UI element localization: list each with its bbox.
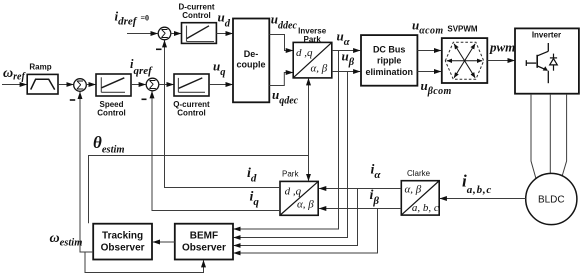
wire u_ddec step	[269, 35, 293, 51]
wire i_d feedback	[165, 40, 281, 187]
svg-text:Clarke: Clarke	[407, 169, 431, 178]
wire speed to sum2	[131, 84, 146, 86]
svg-text:SVPWM: SVPWM	[447, 24, 478, 33]
svg-text:Control: Control	[182, 11, 210, 20]
wire omega to bemf	[85, 252, 204, 273]
svg-text:a, b, c: a, b, c	[412, 202, 439, 214]
block DC Bus ripple elimination	[361, 35, 417, 86]
svg-text:BLDC: BLDC	[538, 195, 565, 206]
svg-text:ripple: ripple	[377, 56, 402, 66]
svg-text:Σ: Σ	[161, 27, 169, 41]
wire u_beta to bemf	[234, 72, 348, 238]
block D-current Control	[178, 2, 216, 43]
svg-text:d ,q: d ,q	[285, 186, 302, 198]
wire phase b	[549, 94, 551, 174]
block Park	[280, 170, 318, 216]
wire sum2 to q control	[159, 84, 174, 86]
wire d control to decouple	[216, 33, 232, 35]
wire bemf to tracking	[153, 241, 175, 243]
block Q-current Control	[173, 74, 210, 118]
wire i_q feedback	[152, 91, 280, 210]
wire i_dref input	[127, 33, 158, 35]
wire ramp to sum1	[58, 84, 73, 86]
wire phase a	[531, 94, 536, 178]
wire sum3 to d control	[171, 33, 181, 35]
svg-text:α, β: α, β	[405, 184, 422, 196]
wire u_alpha to bemf	[234, 51, 339, 230]
svg-text:Inverter: Inverter	[532, 31, 561, 40]
wire u_beta	[332, 71, 360, 73]
transistor IGBT	[526, 43, 557, 83]
wire i_beta to bemf	[234, 209, 378, 254]
block BEMF Observer	[175, 224, 233, 260]
wire theta vertical	[308, 78, 310, 181]
wire w_ref input	[2, 84, 27, 86]
svg-text:α, β: α, β	[311, 63, 328, 75]
wire u_alpha	[332, 50, 360, 52]
summer S1	[70, 79, 86, 101]
svg-text:Speed: Speed	[99, 100, 123, 109]
wire i_abc	[440, 198, 526, 200]
svg-text:pwm: pwm	[489, 40, 515, 55]
block Inverse Park	[293, 27, 332, 78]
svg-text:Observer: Observer	[101, 243, 145, 254]
svg-text:Park: Park	[282, 170, 299, 179]
svg-text:Ramp: Ramp	[29, 63, 51, 72]
wire u_bcom	[417, 71, 441, 73]
block Tracking Observer	[93, 224, 152, 260]
wire pwm	[487, 60, 514, 62]
wire theta horizontal	[89, 156, 309, 224]
block Ramp	[27, 63, 58, 95]
svg-text:elimination: elimination	[365, 67, 413, 77]
svg-text:Park: Park	[304, 35, 322, 44]
svg-text:Σ: Σ	[149, 78, 157, 92]
svg-text:d ,q: d ,q	[296, 47, 313, 59]
wire u_acom	[417, 50, 441, 52]
block Speed Control	[96, 74, 131, 118]
svg-text:De-: De-	[244, 49, 259, 59]
wire i_alpha to bemf	[234, 189, 358, 246]
svg-text:Tracking: Tracking	[102, 231, 143, 242]
block Clarke	[401, 169, 439, 215]
svg-text:Observer: Observer	[182, 243, 226, 254]
wire sum1 to speed control	[86, 84, 95, 86]
block SVPWM	[442, 24, 488, 83]
wire q control to decouple	[209, 84, 233, 86]
svg-text:Q-current: Q-current	[173, 100, 210, 109]
wire phase c	[562, 94, 567, 177]
svg-text:Σ: Σ	[76, 79, 84, 93]
motor BLDC	[526, 173, 577, 224]
wire i_beta	[319, 208, 401, 210]
wire i_alpha	[319, 188, 401, 190]
wire omega_estim up	[80, 92, 93, 252]
svg-text:BEMF: BEMF	[190, 231, 218, 242]
summer S2	[142, 78, 159, 99]
block De-couple	[233, 19, 269, 103]
svg-text:DC Bus: DC Bus	[373, 44, 406, 54]
wire u_qdec step	[269, 73, 293, 86]
summer S3	[156, 27, 171, 49]
svg-text:Control: Control	[97, 109, 125, 118]
block Inverter	[515, 28, 579, 93]
svg-text:α, β: α, β	[297, 199, 314, 211]
svg-text:couple: couple	[236, 60, 265, 70]
svg-text:Control: Control	[177, 109, 205, 118]
